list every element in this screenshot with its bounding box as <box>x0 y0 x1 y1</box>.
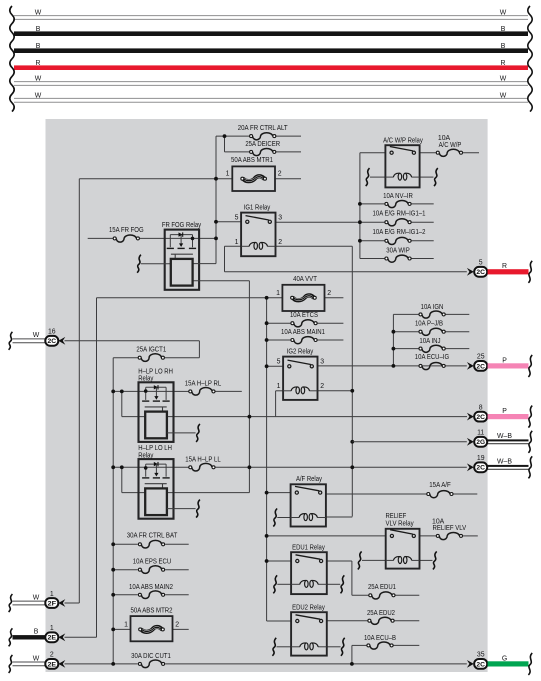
fuse 10A ABS MAIN1 <box>281 329 325 344</box>
wire IG2 pin5 feed <box>267 365 284 367</box>
junction EPS ECU feed <box>111 568 115 572</box>
junction IG2 pin5 feed <box>265 364 269 368</box>
junction RM-IG1-2 feed <box>358 239 362 243</box>
wire RELIEF switch feed <box>267 535 386 537</box>
fuse 50A ABS MTR2 <box>124 608 179 642</box>
svg-text:2: 2 <box>50 652 54 659</box>
wire B (harness row 3) <box>14 48 528 53</box>
wire EDU2 switch out / 25A EDU2 row <box>327 620 420 622</box>
svg-text:10A: 10A <box>438 135 451 142</box>
wire EDU2 switch feed <box>267 620 292 622</box>
fuse 25A DEICER <box>245 141 280 156</box>
wire bus C (relay coil return x=352.3) <box>351 246 353 516</box>
junction IG1 pin5 feed <box>214 220 218 224</box>
wire EDU1 switch feed <box>267 560 292 562</box>
relay FR FOG outer box <box>162 222 202 290</box>
relay H-LP LO RH internals <box>142 385 170 412</box>
fuse 30A FR CTRL BAT <box>127 533 178 548</box>
svg-text:2: 2 <box>278 239 282 246</box>
junction RH feed a <box>111 390 115 394</box>
svg-text:25: 25 <box>477 354 485 361</box>
svg-text:R: R <box>36 60 41 67</box>
wire A/C WP coil left <box>370 176 385 178</box>
relay IG1 <box>235 205 283 257</box>
junction LH feed b <box>120 465 124 469</box>
fuse 25A EDU1 <box>368 584 396 599</box>
wire 50A ABS MTR1 row <box>79 178 301 180</box>
svg-text:15A FR FOG: 15A FR FOG <box>109 227 144 234</box>
svg-text:2C: 2C <box>476 363 485 370</box>
fuse 15A A/F <box>427 482 453 498</box>
svg-text:R: R <box>502 263 507 270</box>
svg-text:10A ABS MAIN1: 10A ABS MAIN1 <box>281 329 325 336</box>
svg-text:RELIEF VLV: RELIEF VLV <box>433 525 467 532</box>
fuse 15A H-LP LL <box>185 456 221 471</box>
junction RH feed b <box>120 390 124 394</box>
wire EDU1 coil left <box>277 583 291 585</box>
fuse 10A ECU-B <box>364 635 396 649</box>
svg-text:W: W <box>35 10 42 17</box>
junction IGN bank feed <box>392 364 396 368</box>
svg-text:2G: 2G <box>476 439 485 446</box>
svg-text:B: B <box>36 26 41 33</box>
relay FR FOG inner box <box>171 259 193 286</box>
junction NV-IR feed <box>358 202 362 206</box>
wire bus from 2E-1 to 40A VVT row <box>96 298 98 638</box>
wire A/C WP switch out <box>420 152 479 154</box>
junction ETCS feed <box>265 321 269 325</box>
connector 2C pin 25 (P) <box>467 354 532 377</box>
wire 10A EPS ECU row <box>113 569 189 571</box>
wire RH bypass row <box>139 416 468 418</box>
break squiggle A/C WP coil left <box>366 168 370 186</box>
fuse 10A IGN <box>419 304 445 318</box>
fuse 40A VVT <box>276 276 331 311</box>
svg-text:1: 1 <box>50 591 54 598</box>
svg-text:W–B: W–B <box>497 433 512 440</box>
wire EDU2 coil right <box>327 646 341 648</box>
junction IG2 coil return <box>350 389 354 393</box>
wire 2G-11 row <box>352 441 467 443</box>
svg-text:R: R <box>501 60 506 67</box>
svg-text:10A INJ: 10A INJ <box>419 338 440 345</box>
fuse 10A P-J/B <box>415 320 445 335</box>
wire FR FOG input squiggle row <box>141 263 173 265</box>
svg-text:RELIEF: RELIEF <box>386 513 407 520</box>
svg-text:W: W <box>33 332 40 339</box>
harness break squiggle left <box>10 6 14 112</box>
wire EDU1 coil right <box>327 583 340 585</box>
svg-text:30A DIC CUT1: 30A DIC CUT1 <box>131 653 171 660</box>
relay RELIEF VLV <box>386 513 420 568</box>
fuse 30A DIC CUT1 <box>131 653 171 668</box>
fuse 10A ABS MAIN2 <box>129 584 173 599</box>
break squiggle LH output <box>196 500 200 518</box>
svg-text:10A ECU–IG: 10A ECU–IG <box>415 354 449 361</box>
svg-text:20A FR CTRL ALT: 20A FR CTRL ALT <box>238 125 289 132</box>
svg-text:10A EPS ECU: 10A EPS ECU <box>133 558 171 565</box>
svg-text:W: W <box>35 92 42 99</box>
wire 10A E/G RM-IG1-2 row <box>360 240 434 242</box>
wire 10A INJ row <box>393 348 469 350</box>
relay block panel <box>46 119 488 672</box>
svg-text:P: P <box>502 357 507 364</box>
svg-text:2: 2 <box>175 621 179 628</box>
svg-text:B: B <box>34 629 39 636</box>
svg-text:W: W <box>500 10 507 17</box>
wire W (harness row 5) <box>14 82 528 86</box>
relay H-LP LO LH internals <box>142 462 170 489</box>
svg-text:10A E/G RM–IG1–1: 10A E/G RM–IG1–1 <box>373 210 426 217</box>
wire 10A NV-IR row <box>360 203 434 205</box>
wire A/F switch out <box>326 493 477 495</box>
fuse 15A FR FOG <box>109 227 144 242</box>
svg-text:10A ABS MAIN2: 10A ABS MAIN2 <box>129 584 173 591</box>
svg-text:50A ABS MTR2: 50A ABS MTR2 <box>131 608 173 615</box>
relay H-LP LO LH inner box <box>145 488 167 515</box>
fuse 20A FR CTRL ALT <box>238 125 289 140</box>
wire 10A ABS MAIN2 row <box>113 594 189 596</box>
wire H-LP RH main row <box>113 390 242 392</box>
label B row2 left <box>36 26 41 33</box>
junction LH row on vertical A <box>248 465 252 469</box>
wire FR FOG inner out to bus <box>191 263 216 265</box>
svg-text:2: 2 <box>320 383 324 390</box>
junction RELIEF switch feed <box>265 534 269 538</box>
svg-text:15A H–LP RL: 15A H–LP RL <box>185 380 222 387</box>
svg-text:Relay: Relay <box>138 376 154 383</box>
svg-text:H–LP LO RH: H–LP LO RH <box>138 368 173 375</box>
svg-text:2: 2 <box>327 290 331 297</box>
relay H-LP LO RH outer box <box>138 368 173 442</box>
wire 15A FR FOG row <box>88 237 165 239</box>
wire RELIEF switch out <box>420 535 478 537</box>
label W row6 right <box>500 92 507 99</box>
wire bus from 2F-1 to 50A ABS MTR1 <box>78 179 80 603</box>
svg-text:2F: 2F <box>48 600 57 607</box>
wire 20A FR CTRL ALT row <box>216 135 301 137</box>
junction LH row on bus C <box>350 465 354 469</box>
wire LH bypass row <box>139 492 250 494</box>
break squiggle FR FOG input <box>137 255 141 273</box>
svg-text:A/C W/P Relay: A/C W/P Relay <box>383 138 423 145</box>
junction A/F switch feed <box>265 491 269 495</box>
junction EDU1 switch feed <box>265 559 269 563</box>
wire IG2 coil feed drop <box>276 391 284 417</box>
svg-text:10A IGN: 10A IGN <box>421 304 444 311</box>
junction ABS MAIN1 feed <box>265 338 269 342</box>
wire FR FOG inner out C <box>191 280 250 282</box>
svg-text:G: G <box>502 655 507 662</box>
relay A/C W/P <box>383 138 423 188</box>
wire IG1 coil feed to 2C-5 <box>225 271 467 273</box>
svg-text:IG2 Relay: IG2 Relay <box>287 348 314 355</box>
fuse 10A NV-IR <box>383 193 413 208</box>
wire LH output row <box>167 508 196 510</box>
svg-text:EDU2 Relay: EDU2 Relay <box>292 604 325 611</box>
svg-text:1: 1 <box>276 290 280 297</box>
wire 10A IGN row <box>393 313 469 315</box>
label W row1 right <box>500 10 507 17</box>
wire 25A EDU1 row <box>352 594 419 596</box>
svg-text:8: 8 <box>479 404 483 411</box>
wire stub H-LP RH bypass feed <box>122 391 139 416</box>
wire 10A P-J/B row <box>393 331 469 333</box>
svg-text:W: W <box>33 655 40 662</box>
wire 2F-1 row <box>65 602 80 604</box>
wire IG2 pin3 row to 2C-25 <box>318 365 467 367</box>
wire EDU2 coil left <box>277 646 292 648</box>
wire EDU1 switch out <box>327 560 352 562</box>
label B row2 right <box>501 26 506 33</box>
wire W (harness row 6) <box>14 98 528 102</box>
wire A/F coil right <box>326 516 352 518</box>
fuse 50A ABS MTR1 <box>226 157 282 191</box>
svg-text:1: 1 <box>226 171 230 178</box>
break squiggle EDU1 coil left <box>273 575 277 593</box>
relay H-LP LO RH inner box <box>145 412 167 439</box>
wire RH output row <box>167 432 196 434</box>
wire R (harness row 4) <box>14 65 528 70</box>
fuse 25A IGCT1 <box>136 347 166 362</box>
svg-text:15A A/F: 15A A/F <box>429 482 451 489</box>
fuse 25A EDU2 <box>367 610 395 625</box>
svg-text:35: 35 <box>477 652 485 659</box>
svg-text:A/C W/P: A/C W/P <box>439 142 462 149</box>
svg-text:W: W <box>500 92 507 99</box>
svg-text:FR FOG Relay: FR FOG Relay <box>162 222 202 229</box>
wire stub H-LP LH bypass feed <box>122 467 139 492</box>
wire vertical A (FR FOG out distribution) <box>248 281 250 493</box>
svg-text:W: W <box>500 76 507 83</box>
break squiggle RH output <box>196 424 200 442</box>
junction P-J/B feed <box>392 330 396 334</box>
junction bus B on VVT row <box>265 296 269 300</box>
connector 2C pin 16 (W) <box>9 329 66 350</box>
junction bus x216 on MTR1 row <box>214 177 218 181</box>
svg-text:19: 19 <box>477 455 485 462</box>
connector 2F pin 1 (W) <box>9 591 66 612</box>
wire 30A DIC CUT1 / 2E-2 row <box>65 663 467 665</box>
svg-text:2E: 2E <box>48 661 57 668</box>
svg-text:5: 5 <box>479 260 483 267</box>
svg-text:16: 16 <box>48 329 56 336</box>
fuse 10A E/G RM-IG1-1 <box>373 210 426 226</box>
wire IG1 pin3 to fuse bank <box>276 221 360 223</box>
wire 10A ETCS row <box>267 322 344 324</box>
wire IG1 pin2 to bus C <box>276 245 353 247</box>
svg-text:15A H–LP LL: 15A H–LP LL <box>185 456 221 463</box>
svg-text:25A EDU2: 25A EDU2 <box>367 610 395 617</box>
svg-text:B: B <box>36 43 41 50</box>
svg-text:VLV Relay: VLV Relay <box>386 521 415 528</box>
junction LH feed a <box>111 465 115 469</box>
wire IG1 pin1 feed <box>225 245 242 247</box>
wire 10A E/G RM-IG1-1 row <box>360 221 434 223</box>
break squiggle RELIEF coil left <box>358 551 362 569</box>
svg-text:B: B <box>501 26 506 33</box>
relay EDU2 <box>291 604 327 655</box>
label R row4 left <box>36 60 41 67</box>
svg-text:25A DEICER: 25A DEICER <box>245 141 280 148</box>
label W row5 right <box>500 76 507 83</box>
connector 2E pin 1 (B) <box>9 625 66 646</box>
svg-text:3: 3 <box>278 214 282 221</box>
svg-text:2C: 2C <box>48 338 57 345</box>
junction INJ feed <box>392 347 396 351</box>
junction ECU-B tap <box>350 662 354 666</box>
svg-text:W: W <box>35 76 42 83</box>
svg-text:2C: 2C <box>476 269 485 276</box>
junction CTRL BAT feed <box>111 542 115 546</box>
wire 40A VVT row <box>97 297 344 299</box>
connector 2C pin 8 (P) <box>467 404 532 427</box>
svg-text:2C: 2C <box>476 465 485 472</box>
break squiggle RELIEF coil right <box>433 551 437 569</box>
svg-text:W: W <box>33 594 40 601</box>
connector 2C pin 19 (W-B) <box>467 455 532 478</box>
svg-text:1: 1 <box>235 239 239 246</box>
junction RH bypass on vertical A <box>248 415 252 419</box>
fuse 10A RELIEF VLV <box>432 519 467 540</box>
svg-text:5: 5 <box>235 214 239 221</box>
wire 10A ECU-B drop <box>351 645 353 664</box>
fuse 10A INJ <box>419 338 445 353</box>
break squiggle A/C WP coil right <box>434 168 438 186</box>
wire RELIEF coil left <box>362 559 386 561</box>
label W row1 left <box>35 10 42 17</box>
junction ABS MTR2 feed <box>111 628 115 632</box>
wire 25A IGCT1 row <box>113 357 199 359</box>
relay IG2 <box>277 348 325 400</box>
wire FR FOG through row <box>165 237 216 239</box>
svg-text:40A VVT: 40A VVT <box>293 276 317 283</box>
svg-text:10A ECU–B: 10A ECU–B <box>364 635 396 642</box>
wire 10A ABS MAIN1 row <box>267 339 344 341</box>
relay FR FOG internals <box>167 232 196 259</box>
junction ABS MAIN2 feed <box>111 593 115 597</box>
wire A/C WP coil right <box>420 176 434 178</box>
junction deicer branch <box>223 134 227 138</box>
wire 30A FR CTRL BAT row <box>113 543 189 545</box>
wire 25A EDU1 drop <box>351 561 353 595</box>
connector 2E pin 2 (W) <box>9 652 66 673</box>
wire W (harness row 1) <box>14 16 528 20</box>
relay EDU1 <box>291 544 327 594</box>
wire A/F coil left <box>277 517 290 519</box>
svg-text:A/F Relay: A/F Relay <box>296 476 323 483</box>
svg-text:2E: 2E <box>48 635 57 642</box>
label R row4 right <box>501 60 506 67</box>
label B row3 left <box>36 43 41 50</box>
junction FR FOG through / bus <box>214 237 218 241</box>
svg-text:2C: 2C <box>476 414 485 421</box>
wire A/C W/P switch feed drop <box>359 153 361 259</box>
wire IG1 pin5 feed <box>216 221 241 223</box>
svg-text:25A EDU1: 25A EDU1 <box>368 584 396 591</box>
svg-text:11: 11 <box>477 430 484 437</box>
svg-text:3: 3 <box>320 359 324 366</box>
fuse 30A WIP <box>385 247 411 262</box>
label W row6 left <box>35 92 42 99</box>
svg-text:IG1 Relay: IG1 Relay <box>244 205 271 212</box>
wire bus B (+B distribution x=266.6) <box>266 298 268 621</box>
label W row5 left <box>35 76 42 83</box>
svg-text:10A E/G RM–IG1–2: 10A E/G RM–IG1–2 <box>373 229 426 236</box>
wire 10A IGN bank feed <box>392 314 394 366</box>
wire 2E-1 row <box>65 636 97 638</box>
break squiggle EDU1 coil right <box>341 575 345 593</box>
svg-text:2: 2 <box>278 171 282 178</box>
junction bus C / 2G-11 row <box>350 440 354 444</box>
fuse 10A ETCS <box>290 312 318 327</box>
wire IG1 coil feed drop <box>224 246 226 271</box>
wire 50A ABS MTR2 row <box>113 628 189 630</box>
svg-text:1: 1 <box>277 383 281 390</box>
svg-text:10A NV–IR: 10A NV–IR <box>383 193 413 200</box>
wire A/F switch feed <box>267 492 291 494</box>
wire 10A ECU-B row <box>352 644 419 646</box>
svg-text:5: 5 <box>277 359 281 366</box>
break squiggle EDU2 coil left <box>272 638 276 656</box>
junction RM-IG1-1 feed <box>358 220 362 224</box>
svg-text:B: B <box>501 43 506 50</box>
wire B (harness row 2) <box>14 31 528 36</box>
svg-text:1: 1 <box>50 625 54 632</box>
fuse 10A ECU-IG <box>415 354 449 370</box>
svg-text:10A ETCS: 10A ETCS <box>290 312 318 319</box>
svg-text:1: 1 <box>124 621 128 628</box>
svg-text:25A IGCT1: 25A IGCT1 <box>136 347 166 354</box>
wire bus 20A ALT feed (x=216) <box>215 136 217 264</box>
fuse 15A H-LP RL <box>185 380 222 395</box>
relay A/F <box>291 476 326 526</box>
svg-text:H–LP LO LH: H–LP LO LH <box>138 445 172 452</box>
junction DIC CUT1 bus <box>111 662 115 666</box>
svg-text:30A FR CTRL BAT: 30A FR CTRL BAT <box>127 533 178 540</box>
wire 25A DEICER row <box>225 151 302 153</box>
wire 30A WIP row <box>360 258 434 260</box>
wire IG2 pin2 to bus C <box>318 390 353 392</box>
svg-text:30A WIP: 30A WIP <box>386 247 410 254</box>
svg-text:2C: 2C <box>476 661 485 668</box>
svg-text:50A ABS MTR1: 50A ABS MTR1 <box>231 157 273 164</box>
label B row3 right <box>501 43 506 50</box>
connector 2C pin 5 (R) <box>467 260 532 283</box>
wire bus from 25A IGCT1 down left side <box>112 358 114 664</box>
svg-text:Relay: Relay <box>138 452 154 459</box>
wire 2C-16 row <box>65 341 200 358</box>
svg-text:W–B: W–B <box>497 459 512 466</box>
wire H-LP LH main row <box>113 466 467 468</box>
connector 2G pin 11 (W-B) <box>467 430 532 453</box>
fuse 10A E/G RM-IG1-2 <box>373 229 426 245</box>
wire RELIEF coil right <box>420 559 433 561</box>
wire 25A DEICER branch <box>224 136 226 152</box>
svg-text:P: P <box>502 408 507 415</box>
break squiggle EDU2 coil right <box>341 638 345 656</box>
wire A/C WP switch feed <box>360 152 386 154</box>
break squiggle A/F coil left <box>273 509 277 527</box>
connector 2C pin 35 (G) <box>467 652 532 675</box>
relay H-LP LO LH outer box <box>138 445 173 519</box>
svg-text:10A P–J/B: 10A P–J/B <box>415 320 443 327</box>
fuse 10A A/C W/P <box>436 135 462 157</box>
fuse 10A EPS ECU <box>133 558 171 573</box>
svg-text:EDU1 Relay: EDU1 Relay <box>292 544 325 551</box>
harness break squiggle right <box>528 6 532 112</box>
